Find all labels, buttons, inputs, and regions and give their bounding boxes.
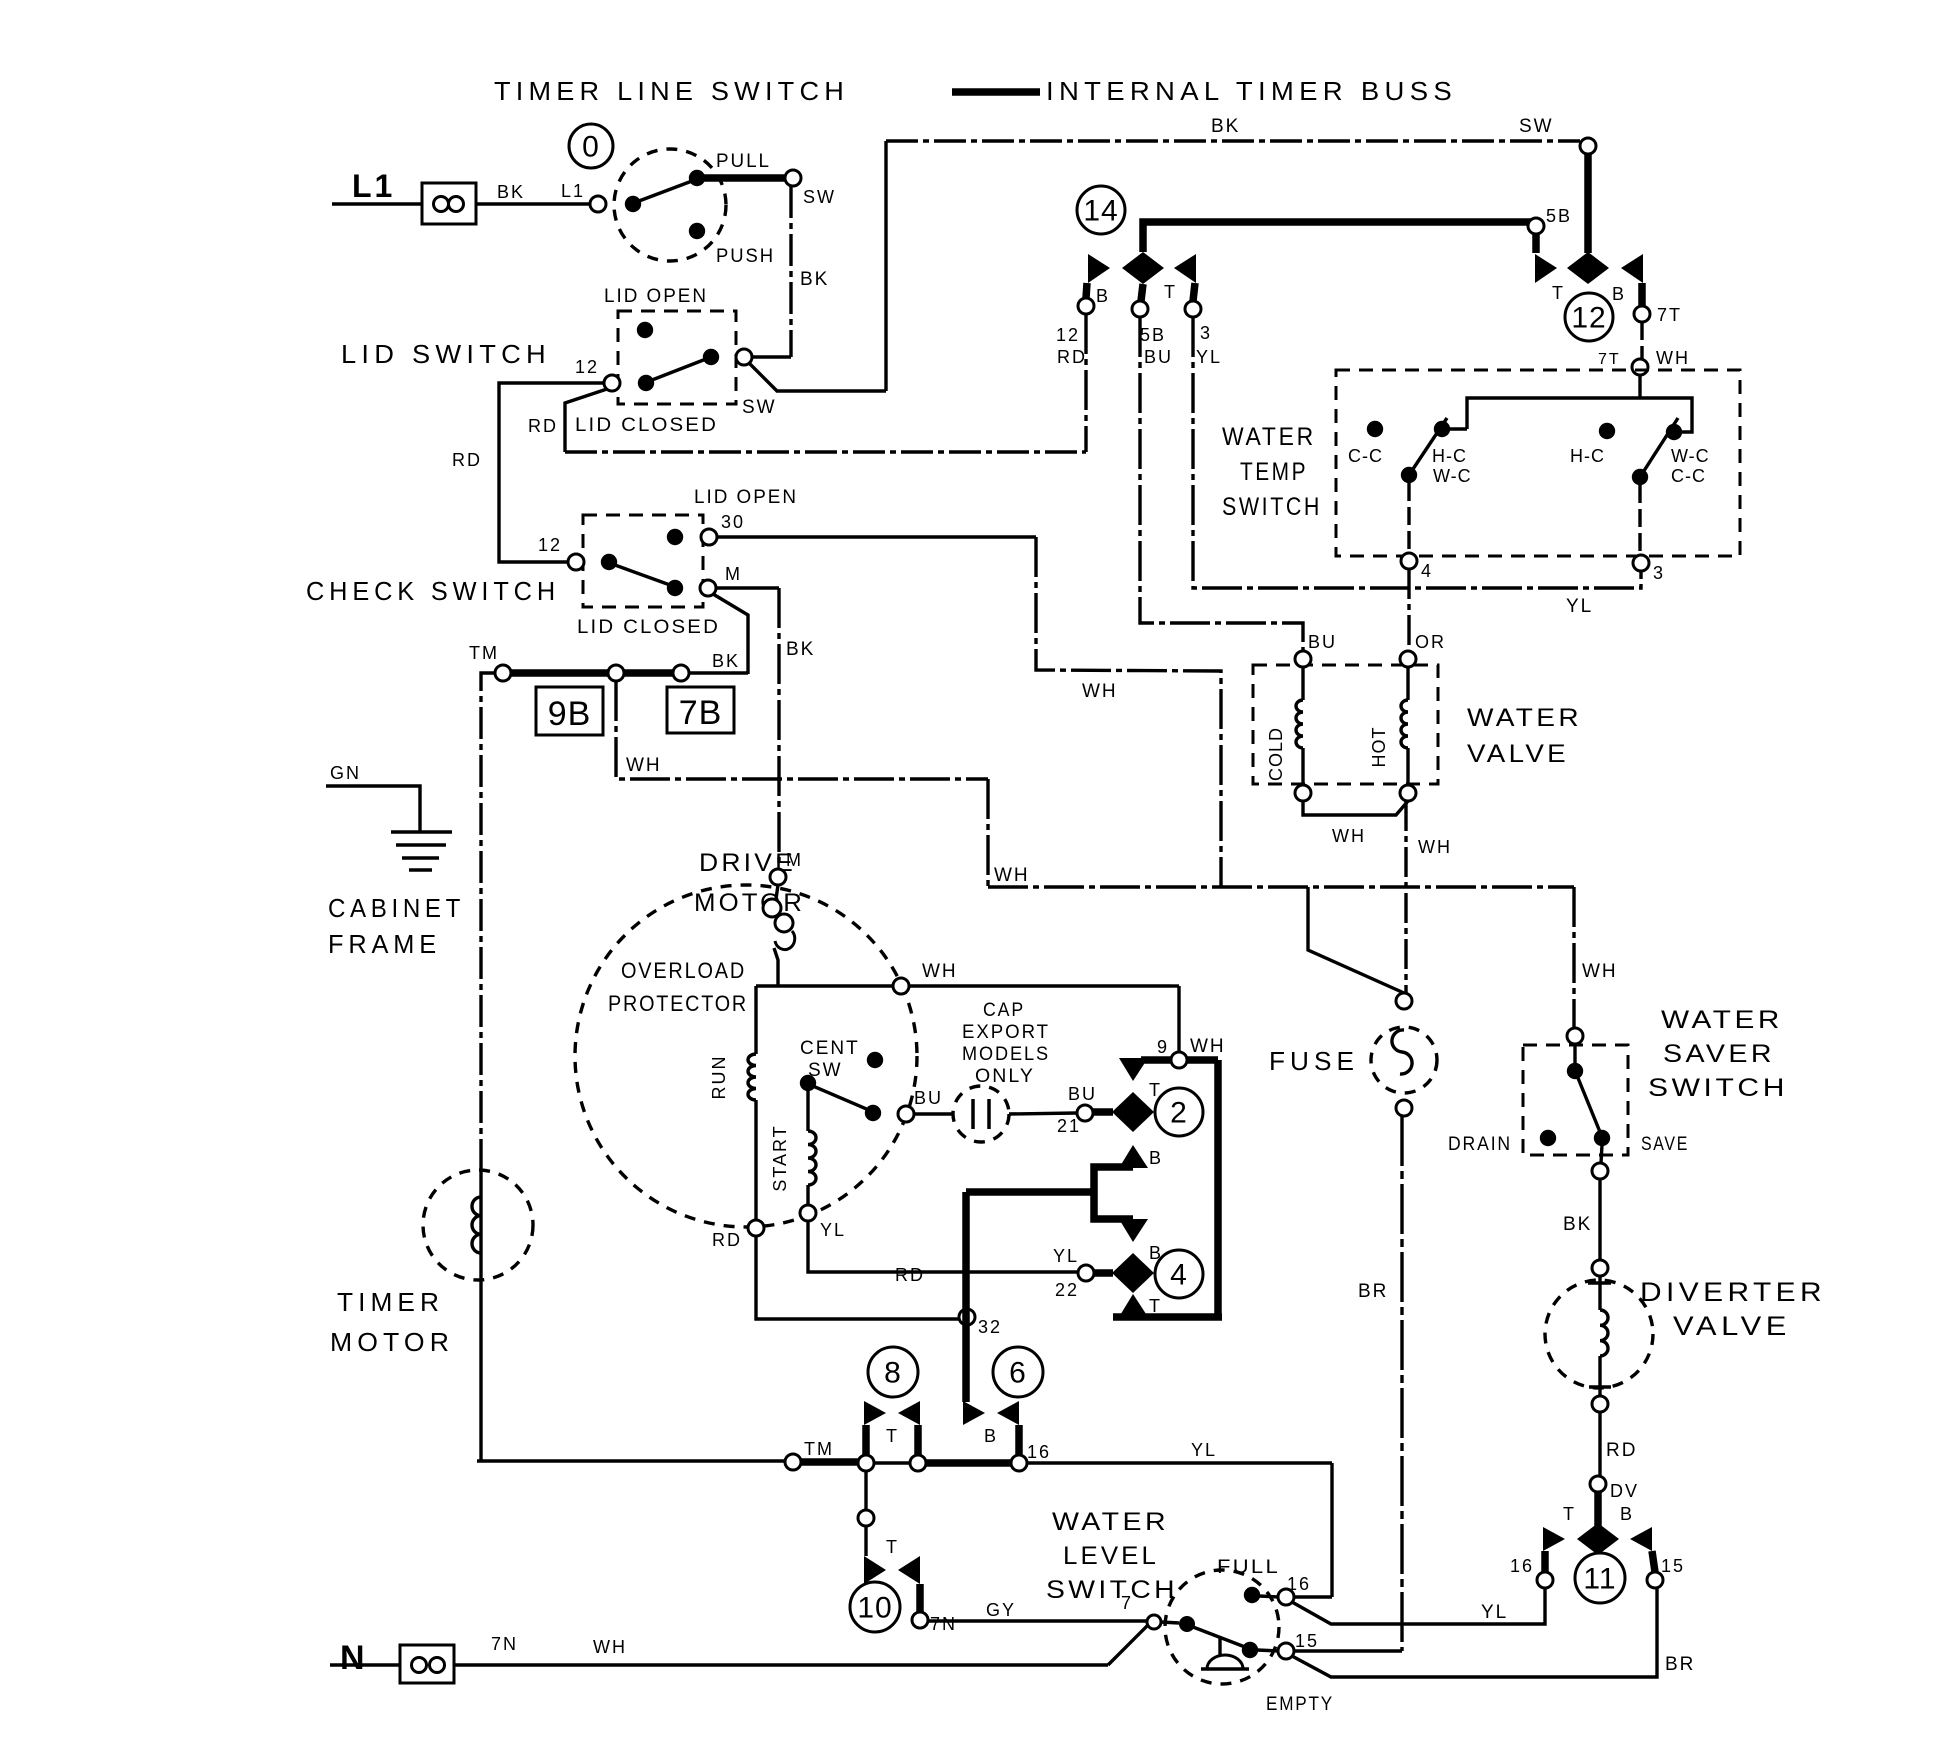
svg-text:L1: L1 [561,181,585,201]
svg-text:12: 12 [538,535,562,555]
svg-text:BK: BK [786,639,815,660]
svg-text:MOTOR: MOTOR [694,889,805,917]
svg-text:10: 10 [857,1592,892,1625]
svg-text:7: 7 [1121,1593,1133,1613]
svg-text:B: B [984,1426,998,1446]
svg-text:INTERNAL TIMER BUSS: INTERNAL TIMER BUSS [1046,76,1457,106]
svg-text:7T: 7T [1598,351,1621,368]
svg-text:T: T [886,1537,899,1557]
svg-text:5B: 5B [1546,206,1572,226]
svg-text:WH: WH [1418,837,1452,857]
svg-text:OR: OR [1415,632,1446,652]
svg-text:GY: GY [986,1600,1016,1620]
svg-text:2: 2 [1170,1097,1188,1130]
svg-text:W-C: W-C [1433,466,1472,486]
svg-text:RD: RD [528,416,558,436]
svg-text:22: 22 [1055,1280,1079,1300]
svg-text:L1: L1 [352,168,395,204]
svg-text:RUN: RUN [709,1055,729,1100]
svg-text:GN: GN [330,763,361,783]
svg-text:LID OPEN: LID OPEN [604,286,708,307]
svg-text:LID CLOSED: LID CLOSED [577,617,720,638]
svg-text:MOTOR: MOTOR [330,1327,454,1357]
svg-text:M: M [786,850,803,870]
svg-text:PULL: PULL [716,151,771,172]
svg-text:WH: WH [922,961,958,982]
svg-text:16: 16 [1027,1442,1051,1462]
svg-text:YL: YL [1481,1602,1508,1623]
svg-text:COLD: COLD [1266,727,1286,781]
svg-text:H-C: H-C [1432,446,1467,466]
svg-text:TEMP: TEMP [1240,458,1308,486]
svg-text:C-C: C-C [1671,466,1706,486]
svg-text:EMPTY: EMPTY [1266,1694,1334,1715]
svg-text:12: 12 [1056,325,1080,345]
svg-text:DV: DV [1610,1481,1639,1501]
svg-text:T: T [1563,1504,1576,1524]
svg-text:SAVER: SAVER [1663,1040,1775,1068]
svg-text:CABINET: CABINET [328,893,465,923]
svg-text:YL: YL [1566,596,1593,617]
svg-text:FULL: FULL [1217,1557,1280,1578]
svg-text:SW: SW [742,397,777,418]
svg-text:RD: RD [712,1230,742,1250]
svg-text:WH: WH [593,1637,627,1657]
svg-text:SWITCH: SWITCH [1222,493,1322,521]
svg-text:START: START [770,1124,790,1191]
svg-text:SWITCH: SWITCH [1648,1074,1788,1102]
svg-text:N: N [340,1639,367,1677]
svg-text:RD: RD [1057,347,1087,367]
svg-text:DIVERTER: DIVERTER [1640,1277,1826,1307]
svg-text:B: B [1096,286,1110,306]
svg-text:C-C: C-C [1348,446,1383,466]
svg-text:7N: 7N [491,1634,518,1654]
svg-text:CENT: CENT [800,1038,860,1059]
svg-text:0: 0 [582,131,600,164]
svg-text:BU: BU [914,1088,943,1108]
svg-text:M: M [725,564,742,584]
svg-text:7N: 7N [930,1614,957,1634]
svg-text:BK: BK [1211,116,1240,137]
svg-text:RD: RD [452,450,482,470]
svg-text:H-C: H-C [1570,446,1605,466]
svg-text:WATER: WATER [1467,704,1582,732]
svg-text:ONLY: ONLY [975,1066,1035,1087]
svg-text:9B: 9B [548,695,592,733]
svg-text:30: 30 [721,512,745,532]
svg-text:15: 15 [1661,1556,1685,1576]
svg-text:RD: RD [1606,1440,1637,1461]
svg-text:WH: WH [994,865,1030,886]
svg-text:WATER: WATER [1052,1508,1169,1536]
svg-text:TIMER LINE SWITCH: TIMER LINE SWITCH [494,76,849,106]
svg-text:TM: TM [469,643,499,663]
svg-text:BR: BR [1665,1654,1695,1675]
svg-text:YL: YL [820,1220,846,1240]
svg-text:4: 4 [1170,1259,1188,1292]
svg-text:12: 12 [575,357,599,377]
svg-text:WH: WH [1656,348,1690,368]
svg-text:7B: 7B [679,694,723,732]
svg-text:TM: TM [804,1439,834,1459]
svg-text:LEVEL: LEVEL [1063,1542,1159,1570]
svg-text:FRAME: FRAME [328,929,441,959]
svg-text:WH: WH [1190,1036,1226,1057]
svg-text:T: T [1149,1296,1162,1316]
svg-text:T: T [1552,283,1565,303]
svg-text:BK: BK [1563,1214,1592,1235]
svg-text:SAVE: SAVE [1641,1134,1689,1155]
svg-text:SW: SW [803,187,836,207]
svg-text:FUSE: FUSE [1269,1046,1359,1076]
svg-text:HOT: HOT [1369,727,1389,768]
svg-text:YL: YL [1053,1246,1079,1266]
svg-text:BK: BK [800,269,829,290]
svg-text:WH: WH [1332,826,1366,846]
svg-text:21: 21 [1057,1116,1081,1136]
svg-text:12: 12 [1571,302,1606,335]
svg-text:LID OPEN: LID OPEN [694,487,798,508]
svg-text:YL: YL [1191,1440,1217,1460]
svg-text:3: 3 [1653,563,1665,583]
svg-text:VALVE: VALVE [1673,1311,1791,1341]
svg-text:T: T [886,1426,899,1446]
svg-text:B: B [1620,1504,1634,1524]
svg-text:BU: BU [1144,347,1173,367]
svg-text:14: 14 [1083,195,1118,228]
svg-text:WH: WH [1082,681,1118,702]
svg-text:BK: BK [497,182,525,202]
svg-text:9: 9 [1157,1037,1169,1057]
svg-text:W-C: W-C [1671,446,1710,466]
svg-text:LID CLOSED: LID CLOSED [575,415,718,436]
svg-text:BR: BR [1358,1281,1388,1302]
svg-text:RD: RD [895,1265,925,1285]
svg-text:PUSH: PUSH [716,246,775,267]
svg-text:CAP: CAP [983,1000,1025,1021]
svg-text:SW: SW [1519,116,1554,137]
svg-text:WATER: WATER [1661,1006,1783,1034]
svg-text:CHECK SWITCH: CHECK SWITCH [306,576,560,606]
svg-text:WH: WH [1582,961,1618,982]
svg-text:OVERLOAD: OVERLOAD [621,958,746,983]
svg-text:BU: BU [1308,632,1337,652]
svg-text:WATER: WATER [1222,423,1316,451]
svg-text:6: 6 [1009,1357,1027,1390]
svg-text:B: B [1149,1148,1163,1168]
svg-text:16: 16 [1510,1556,1534,1576]
svg-text:8: 8 [884,1357,902,1390]
svg-text:SWITCH: SWITCH [1046,1576,1178,1604]
svg-text:5B: 5B [1140,325,1166,345]
svg-text:11: 11 [1583,1563,1616,1596]
svg-text:EXPORT: EXPORT [962,1022,1050,1043]
svg-text:BU: BU [1068,1084,1097,1104]
svg-text:B: B [1612,284,1626,304]
svg-text:T: T [1164,282,1177,302]
svg-text:DRAIN: DRAIN [1448,1134,1512,1155]
svg-text:WH: WH [626,755,662,776]
svg-text:TIMER: TIMER [337,1287,444,1317]
svg-text:7T: 7T [1657,305,1682,325]
svg-text:VALVE: VALVE [1467,740,1569,768]
svg-text:15: 15 [1295,1631,1319,1651]
svg-text:3: 3 [1200,323,1212,343]
svg-text:BK: BK [712,651,740,671]
svg-text:16: 16 [1287,1574,1311,1594]
svg-text:LID SWITCH: LID SWITCH [341,339,551,369]
svg-text:MODELS: MODELS [962,1044,1050,1065]
svg-text:32: 32 [978,1317,1002,1337]
svg-text:PROTECTOR: PROTECTOR [608,991,748,1016]
svg-text:4: 4 [1421,561,1433,581]
svg-text:YL: YL [1196,347,1222,367]
